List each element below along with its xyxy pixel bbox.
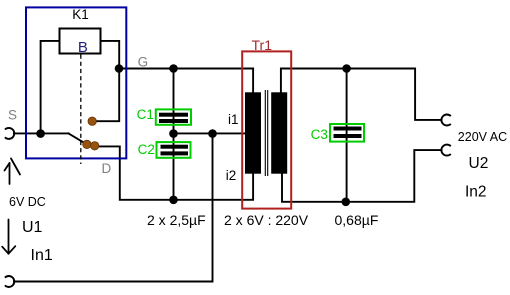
svg-text:0,68µF: 0,68µF — [335, 212, 379, 228]
svg-text:i1: i1 — [228, 112, 239, 127]
svg-text:2 x 6V : 220V: 2 x 6V : 220V — [224, 212, 309, 228]
svg-text:In1: In1 — [31, 247, 53, 264]
svg-text:6V DC: 6V DC — [9, 195, 46, 209]
svg-text:D: D — [102, 161, 112, 176]
svg-text:G: G — [138, 55, 149, 70]
svg-text:C2: C2 — [138, 142, 155, 157]
svg-text:B: B — [78, 39, 88, 56]
svg-text:K1: K1 — [72, 7, 89, 22]
svg-text:Tr1: Tr1 — [252, 37, 273, 53]
svg-text:In2: In2 — [465, 184, 487, 201]
svg-text:220V AC: 220V AC — [458, 130, 507, 144]
svg-text:i2: i2 — [226, 168, 237, 183]
svg-text:U2: U2 — [469, 155, 489, 172]
svg-text:C1: C1 — [137, 107, 154, 122]
svg-text:S: S — [8, 108, 17, 123]
svg-text:U1: U1 — [22, 219, 43, 236]
svg-text:2 x 2,5µF: 2 x 2,5µF — [147, 212, 206, 228]
svg-text:C3: C3 — [311, 127, 328, 142]
